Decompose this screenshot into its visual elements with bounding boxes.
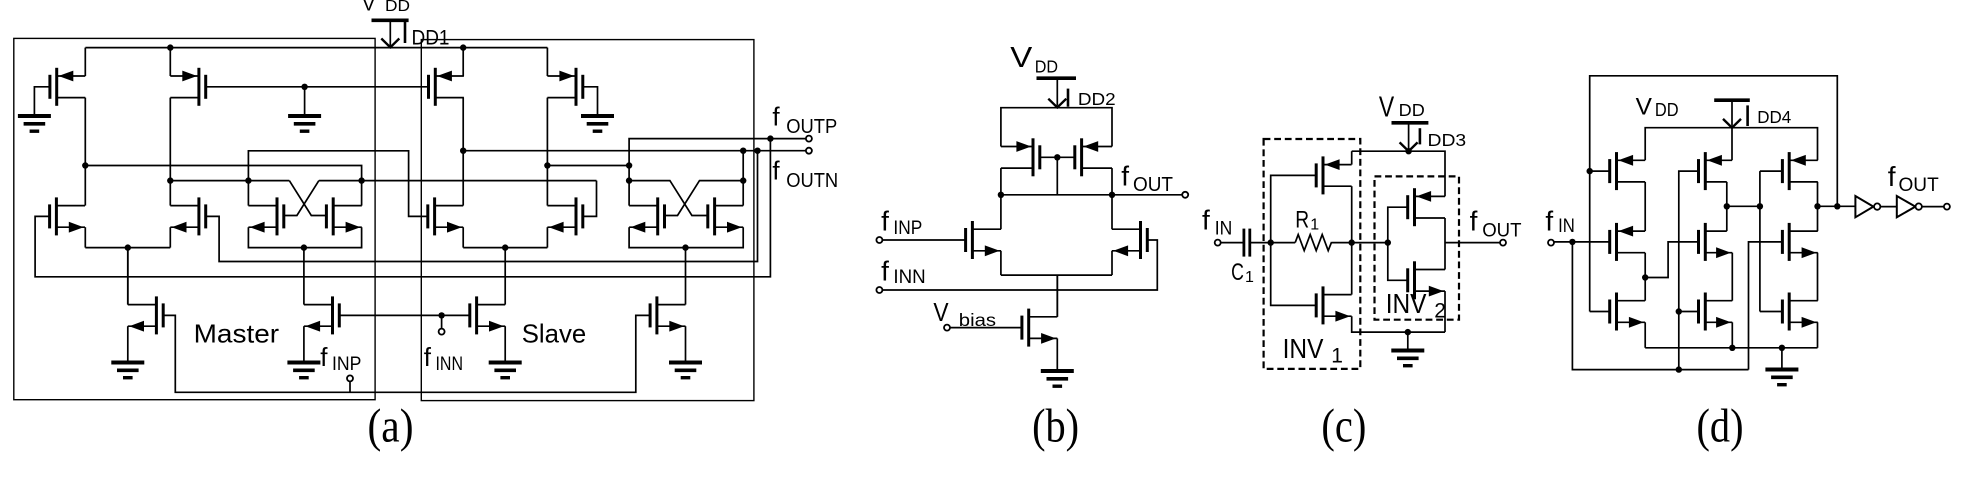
- svg-text:f: f: [1470, 206, 1478, 237]
- transistor XC1 (NMOS cross-coupled left, Master, mirrored): [276, 197, 279, 235]
- wire diff tail rail (b): [1001, 274, 1112, 276]
- wire VDD rail (d): [1645, 128, 1817, 161]
- transistor M33 (row3 col3, NMOS): [1788, 293, 1791, 331]
- transistor NC2 (INV2 NMOS): [1413, 261, 1416, 299]
- Slave NMOS tail rail: [463, 247, 547, 249]
- node: col3 drain junction: [460, 148, 466, 154]
- node: XC tail (Master): [301, 244, 307, 250]
- wire NC1 drain up to output node: [1351, 243, 1353, 295]
- svg-text:1: 1: [1331, 345, 1343, 368]
- wire input node down to N gate: [1271, 243, 1317, 306]
- current label I_DD2: [1067, 89, 1070, 107]
- wire N2 line from T3/T4 junction through XC1 drain: [170, 180, 289, 182]
- wire N2 gate to f_INN terminal: [882, 240, 1157, 290]
- terminal f_INN: [439, 329, 445, 335]
- node: Master diff tail: [125, 244, 131, 250]
- wire P3d drain down to M23: [1817, 182, 1819, 231]
- wire T7 gate to ground: [583, 87, 598, 116]
- node: H_a feedback tap: [767, 135, 773, 141]
- wire T9 drain up to Master tail: [127, 248, 129, 305]
- wire P2 drain down: [1111, 168, 1113, 195]
- wire gate vertical (P3d gate / M33 gate): [1759, 171, 1761, 311]
- node: stage2 drain tap: [1724, 203, 1730, 209]
- wire T2 drain up: [84, 166, 86, 206]
- wire T8b source down to Slave tail rail: [546, 227, 548, 247]
- transistor M32 (row3 col2, NMOS): [1704, 293, 1707, 331]
- wire P2d drain down to M22: [1726, 182, 1728, 231]
- wire N2 drain up to bus: [1111, 195, 1113, 229]
- ground (T13 source): [669, 361, 702, 365]
- terminal f_OUT (b): [1182, 192, 1188, 198]
- svg-text:bias: bias: [959, 310, 997, 330]
- svg-text:V: V: [1636, 93, 1653, 120]
- node: M32 gate tap: [1676, 308, 1682, 314]
- wire PC2 drain down: [1444, 218, 1446, 270]
- node: f_IN branch: [1569, 239, 1575, 245]
- svg-text:DD4: DD4: [1757, 107, 1791, 127]
- wire source line (d): [1645, 347, 1817, 349]
- resistor R1: [1271, 242, 1296, 244]
- terminal f_OUTP: [806, 136, 812, 142]
- ground (c): [1391, 349, 1424, 353]
- svg-text:IN: IN: [1558, 216, 1575, 237]
- VDD rail wire (a): [85, 47, 547, 49]
- transistor T8b (NMOS, Slave mirror right, mirrored): [575, 197, 578, 235]
- terminal V_bias: [944, 325, 950, 331]
- wire T9 source down to ground: [127, 326, 129, 362]
- svg-text:DD: DD: [1035, 56, 1058, 76]
- svg-text:f: f: [772, 156, 780, 186]
- wire N3 drain up: [1056, 275, 1058, 317]
- wire output to buffers: [1818, 205, 1856, 207]
- transistor PC1 (INV1 PMOS): [1322, 156, 1325, 194]
- wire M21 source down to M31 drain with M22 gate tap: [1644, 253, 1646, 301]
- svg-text:V: V: [933, 299, 948, 327]
- wire XC pair source rail (Slave): [629, 227, 743, 247]
- wire M32 gate lead: [1679, 311, 1699, 313]
- wire T1 gate to ground: [34, 87, 50, 116]
- wire tail down to N3: [1056, 275, 1058, 317]
- wire T7 drain down: [546, 98, 548, 166]
- wire R output to INV2 input: [1352, 242, 1388, 244]
- wire T10 gate to f_INN line to T11 gate: [339, 314, 470, 316]
- svg-text:f: f: [881, 256, 889, 287]
- transistor M23 (row2 col3, NMOS): [1788, 223, 1791, 261]
- svg-text:INP: INP: [332, 354, 361, 375]
- wire PC1 source up to rail: [1351, 151, 1353, 164]
- wire T10 source down to ground: [303, 326, 305, 362]
- capacitor C1: [1243, 229, 1246, 257]
- node: loop P1d gate tap: [1587, 168, 1593, 174]
- node: INV1 output on R line: [1349, 239, 1355, 245]
- wire T2 source down to tail rail: [84, 227, 86, 247]
- node: Slave diff tail: [502, 244, 508, 250]
- ground (T11 source): [489, 361, 522, 365]
- ground (T1 gate): [18, 114, 51, 118]
- wire T9 gate to f_INP line: [163, 315, 650, 392]
- wire T1 source up to rail: [84, 48, 86, 76]
- svg-text:DD1: DD1: [412, 27, 450, 50]
- wire tail down to T9 drain: [127, 248, 129, 305]
- svg-text:R: R: [1295, 206, 1309, 233]
- transistor T1 (PMOS, Master left load): [55, 68, 58, 106]
- transistor T9 (NMOS tail, Master left, mirrored): [155, 296, 158, 334]
- svg-text:INN: INN: [893, 267, 925, 288]
- wire T5 drain down: [462, 98, 464, 151]
- transistor PC2 (INV2 PMOS): [1413, 188, 1416, 226]
- node: col2 source tap: [1729, 345, 1735, 351]
- wire P2d gate vertical (to M32 gate and f_IN line): [1679, 171, 1699, 370]
- svg-text:OUT: OUT: [1482, 221, 1522, 242]
- wire T11 drain up to Slave tail: [504, 248, 506, 305]
- transistor N3 (NMOS bias): [1027, 309, 1030, 347]
- feedback loop wire (d outer rectangle): [1590, 76, 1838, 312]
- node: f_IN to P2d/M32 gate vertical: [1676, 366, 1682, 372]
- svg-text:OUT: OUT: [1899, 175, 1940, 196]
- node: rail junction T3 source: [167, 44, 173, 50]
- svg-text:Slave: Slave: [522, 318, 587, 348]
- wire f_OUT (b): [1112, 194, 1182, 196]
- wire to f_OUT terminal (d): [1922, 206, 1944, 208]
- svg-text:V: V: [1010, 42, 1033, 74]
- wire f_IN bottom route: [1572, 242, 1748, 370]
- INV1 dashed box: [1264, 139, 1361, 369]
- node: XC2 drain junction: [358, 177, 364, 183]
- node: stage1 lower tap: [1642, 274, 1648, 280]
- svg-text:2: 2: [1434, 299, 1446, 322]
- wire M23 source down to M33 drain: [1817, 253, 1819, 301]
- current label I_DD1: [404, 22, 407, 44]
- svg-text:f: f: [424, 342, 432, 372]
- terminal f_OUT (c): [1500, 240, 1506, 246]
- wire T1 drain down: [84, 98, 86, 166]
- wire f_INP stub: [349, 381, 351, 392]
- wire T11 source down to ground: [504, 326, 506, 362]
- inverter buffer 1: [1855, 196, 1873, 217]
- svg-text:1: 1: [1310, 217, 1319, 234]
- node: INV1 input: [1268, 239, 1274, 245]
- transistor XC3 (NMOS cross-coupled left, Slave, mirrored): [656, 197, 659, 235]
- svg-text:C: C: [1231, 259, 1244, 286]
- transistor N2 (NMOS input right, mirrored): [1139, 221, 1142, 259]
- wire NC1 source down and right to ground line: [1352, 316, 1445, 332]
- wire drain bus: [1001, 194, 1112, 196]
- node: H_b feedback tap: [754, 148, 760, 154]
- node: gate tie: [1054, 154, 1060, 160]
- current label I_DD4: [1746, 105, 1749, 126]
- wire N2 source down to tail: [1111, 251, 1113, 275]
- wire XC2 drain vertical: [361, 181, 363, 206]
- wire M22 source down to M32 drain: [1731, 253, 1733, 301]
- transistor T4 (NMOS, Master mirror right, mirrored): [197, 197, 200, 235]
- transistor P2 (PMOS diode pair right): [1080, 138, 1083, 176]
- wire P1d gate to loop: [1590, 170, 1610, 172]
- wire V_bias to N3 gate: [950, 327, 1022, 329]
- transistor P1 (PMOS diode pair left, mirrored): [1032, 138, 1035, 176]
- transistor T5 (PMOS, Slave left load): [434, 68, 437, 106]
- wire between buffers: [1880, 206, 1896, 208]
- node: INV2 input: [1385, 239, 1391, 245]
- wire down to ground: [304, 87, 306, 116]
- node: col4 drain junction: [544, 162, 550, 168]
- svg-text:OUTP: OUTP: [786, 116, 837, 138]
- INV2 dashed box: [1375, 176, 1460, 319]
- wire T3 source up to rail: [169, 48, 171, 76]
- wire gates down to drain bus: [1056, 157, 1058, 195]
- node: XC3 drain gate-line tap: [626, 177, 632, 183]
- wire T2 gate feedback (from f_OUTP net): [35, 139, 770, 277]
- svg-text:(b): (b): [1032, 400, 1079, 453]
- svg-text:1: 1: [1245, 269, 1254, 286]
- svg-text:V: V: [362, 0, 376, 16]
- wire N3 source down to ground: [1056, 338, 1058, 371]
- wire input node up to P gate: [1271, 175, 1317, 242]
- svg-text:OUTN: OUTN: [786, 170, 838, 192]
- wire down to ground (d): [1781, 348, 1783, 369]
- svg-text:f: f: [1121, 161, 1129, 192]
- wire N1 line (col1 drains to XC2 drain, on to T8b gate): [85, 166, 361, 181]
- svg-text:V: V: [1379, 92, 1395, 124]
- terminal f_INN (b): [876, 287, 882, 293]
- node: bus right / f_OUT: [1109, 192, 1115, 198]
- node: bus left: [998, 192, 1004, 198]
- wire diagonal to XC3 gate: [665, 181, 744, 216]
- wire T3 gate to T5 gate (long gate line): [206, 86, 429, 88]
- ground (d): [1765, 368, 1798, 372]
- wire T8a drain up: [462, 151, 464, 206]
- wire H_b output line (col3 drains to f_OUTN): [463, 150, 806, 152]
- svg-text:(a): (a): [368, 400, 414, 453]
- wire XC3 drain vertical with top corner to H_a: [629, 139, 806, 206]
- wire col4 junction to XC3 drain: [547, 165, 629, 167]
- svg-text:IN: IN: [1215, 218, 1233, 239]
- svg-text:INP: INP: [893, 218, 922, 239]
- node: ground tap (c): [1405, 329, 1411, 335]
- wire stub to f_INN terminal: [441, 315, 443, 328]
- transistor M21 (row2 col1, PMOS style): [1615, 223, 1618, 261]
- terminal f_INP (b): [876, 237, 882, 243]
- wire T4 source down to tail rail: [169, 227, 171, 247]
- svg-text:Master: Master: [194, 318, 280, 348]
- wire diagonal to XC2 gate: [289, 181, 326, 216]
- transistor T13 (NMOS tail, Slave right): [655, 296, 658, 334]
- svg-text:DD: DD: [385, 0, 410, 15]
- transistor P2d (PMOS row1 col2): [1704, 152, 1707, 190]
- node: XC1 drain on N2 line: [245, 177, 251, 183]
- svg-text:(d): (d): [1697, 400, 1744, 453]
- transistor T2 (NMOS, Master mirror left): [55, 197, 58, 235]
- svg-text:f: f: [1545, 205, 1553, 236]
- transistor T10 (NMOS tail, Master right, mirrored): [331, 296, 334, 334]
- wire T13 source down to ground: [685, 326, 687, 362]
- Slave box: [421, 40, 754, 401]
- node: XC3 drain and col4 line: [626, 162, 632, 168]
- node: H_b XC4 tap: [740, 148, 746, 154]
- transistor M31 (row3 col1, NMOS): [1615, 293, 1618, 331]
- wire N1 gate to f_INP terminal: [882, 239, 965, 241]
- wire VDD rail (c): [1352, 151, 1445, 196]
- wire P1d drain down to M21: [1644, 182, 1646, 231]
- transistor XC2 (NMOS cross-coupled right, Master): [332, 197, 335, 235]
- svg-text:INV: INV: [1386, 288, 1427, 319]
- wire M31 source down to source line: [1644, 322, 1646, 348]
- wire XC pair source rail (Master): [248, 227, 361, 247]
- svg-text:f: f: [772, 101, 780, 131]
- wire T4 gate feedback (from f_OUTN net): [206, 151, 758, 262]
- svg-text:f: f: [320, 342, 328, 372]
- transistor M22 (row2 col2, NMOS): [1704, 223, 1707, 261]
- svg-text:INN: INN: [436, 354, 464, 375]
- wire N1 drain up to bus: [1000, 195, 1002, 229]
- transistor T7 (PMOS, Slave right load, mirrored): [575, 68, 578, 106]
- wire P1/P2 gates tied: [1040, 156, 1075, 158]
- wire XC1 drain vertical and top corner to T8a gate: [248, 151, 421, 217]
- current label I_DD3: [1419, 128, 1422, 144]
- transistor T8a (NMOS, Slave mirror left): [433, 197, 436, 235]
- wire P3d gate lead: [1760, 170, 1783, 172]
- node: XC4 drain junction: [740, 177, 746, 183]
- wire XC tail down to T10 drain: [303, 248, 305, 305]
- node: gate vertical tap: [1757, 203, 1763, 209]
- transistor T11 (NMOS tail, Slave left): [475, 296, 478, 334]
- wire top rail (b): [1001, 108, 1112, 147]
- VDD supply bar (d): [1714, 98, 1750, 102]
- wire f_IN to M21 gate: [1554, 241, 1610, 243]
- node: T3/T4 drain junction: [167, 177, 173, 183]
- transistor NC1 (INV1 NMOS): [1322, 286, 1325, 324]
- node: rail arrow junction: [1405, 148, 1411, 154]
- svg-text:OUT: OUT: [1133, 174, 1173, 196]
- wire C1 to input node: [1250, 242, 1271, 244]
- svg-text:DD2: DD2: [1078, 89, 1116, 109]
- wire M33 source down: [1817, 322, 1819, 348]
- node: col1 drain junction: [82, 162, 88, 168]
- svg-text:(c): (c): [1321, 400, 1366, 453]
- wire M31 gate to loop corner: [1590, 311, 1610, 313]
- svg-text:DD: DD: [1655, 99, 1679, 120]
- node: ground tap (d): [1779, 345, 1785, 351]
- wire INV2 input vertical: [1388, 207, 1408, 280]
- terminal f_INP: [347, 375, 353, 381]
- terminal f_IN (c): [1215, 240, 1221, 246]
- node: loop tap on output: [1834, 203, 1840, 209]
- svg-text:f: f: [1202, 205, 1210, 236]
- wire T5 source up to rail: [462, 48, 464, 76]
- terminal f_OUTN: [806, 148, 812, 154]
- wire P1 drain down: [1000, 168, 1002, 195]
- transistor T3 (PMOS, Master right load, mirrored): [197, 68, 200, 106]
- terminal f_IN (d): [1548, 240, 1554, 246]
- transistor P3d (PMOS row1 col3): [1788, 152, 1791, 190]
- wire tap to M22 gate: [1645, 242, 1698, 278]
- wire f_IN to C1: [1221, 242, 1244, 244]
- node: rail junction T5 source: [460, 44, 466, 50]
- wire N1 down to T8b gate: [583, 181, 597, 217]
- ground (T3/T5 gate line): [288, 114, 321, 118]
- transistor N1 (NMOS input left): [971, 221, 974, 259]
- transistor XC4 (NMOS cross-coupled right, Slave): [713, 197, 716, 235]
- node: output junction (d): [1814, 203, 1820, 209]
- wire M23 gate to f_IN bottom line: [1749, 242, 1783, 370]
- wire T7 source up to rail corner: [546, 48, 548, 76]
- Master tail rail wire: [85, 247, 170, 249]
- wire T8b drain up: [546, 166, 548, 206]
- svg-text:f: f: [881, 206, 889, 237]
- svg-text:INV: INV: [1283, 333, 1324, 364]
- wire f_OUT (c): [1445, 242, 1500, 244]
- inverter buffer 2: [1897, 196, 1916, 217]
- wire M32 source down: [1731, 322, 1733, 348]
- ground (T9 source): [111, 361, 144, 365]
- wire stage2 tap to P3d/M33 gate vertical: [1727, 205, 1760, 207]
- wire XC4 drain vertical up to H_b: [742, 151, 744, 206]
- node: f_INN tap: [438, 312, 444, 318]
- terminal f_OUT (d): [1944, 204, 1950, 210]
- node: gate line ground tap: [301, 84, 307, 90]
- wire PC1 drain down to output node: [1351, 186, 1353, 242]
- wire M33 gate lead: [1760, 311, 1783, 313]
- Master box: [14, 38, 375, 399]
- ground (T7 gate): [581, 114, 614, 118]
- wire diagonal to XC1 gate: [284, 181, 319, 216]
- wire T8a source down to Slave tail rail: [462, 227, 464, 247]
- wire T4 drain up: [169, 181, 171, 206]
- ground (T10 source): [287, 361, 320, 365]
- wire rail to P2d source: [1731, 128, 1733, 161]
- wire T13 drain up to Slave XC tail: [685, 248, 687, 305]
- svg-text:f: f: [1888, 161, 1896, 192]
- wire N1 source down to tail: [1000, 251, 1002, 275]
- svg-text:DD3: DD3: [1428, 130, 1467, 150]
- wire NC2 source down to ground line: [1444, 291, 1446, 332]
- ground (b): [1041, 369, 1074, 373]
- node: XC tail (Slave): [682, 244, 688, 250]
- transistor P1d (PMOS row1 col1): [1615, 152, 1618, 190]
- svg-text:DD: DD: [1399, 100, 1425, 120]
- wire T3 drain down: [169, 98, 171, 181]
- wire gate segment + diagonal to XC4 gate: [629, 181, 708, 216]
- wire down to ground (c): [1407, 332, 1409, 350]
